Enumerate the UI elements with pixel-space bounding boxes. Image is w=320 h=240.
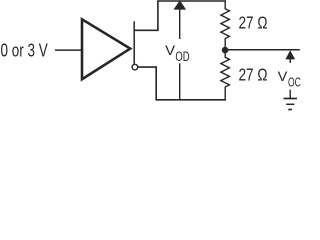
arrow VOC up: [285, 50, 295, 59]
svg-text:V: V: [165, 43, 176, 59]
wire node to VOC: [225, 49, 300, 51]
wire VOD arrow shaft upper: [179, 9, 181, 39]
ground stub: [289, 90, 291, 99]
wire VOC arrow shaft: [289, 59, 291, 63]
wire input to driver: [55, 49, 82, 51]
ground bar 1: [284, 98, 298, 100]
wire driver output vertical bus: [133, 21, 135, 64]
resistor R2 27 ohm bottom: [221, 50, 230, 100]
node junction dot: [222, 47, 229, 54]
svg-text:27 Ω: 27 Ω: [239, 13, 268, 33]
ground bar 3: [288, 109, 292, 111]
arrow VOD up: [174, 0, 187, 9]
svg-text:27 Ω: 27 Ω: [239, 65, 268, 85]
ground bar 2: [286, 103, 294, 105]
svg-text:OD: OD: [175, 49, 189, 64]
svg-text:V: V: [278, 68, 288, 84]
wire bubble to bottom rail and bottom rail: [138, 67, 226, 100]
op-amp U1 driver triangle: [82, 19, 130, 79]
svg-text:OC: OC: [288, 74, 301, 89]
inverter bubble: [132, 64, 138, 70]
svg-text:0 or 3 V: 0 or 3 V: [1, 41, 48, 61]
wire jog to top rail and top rail: [134, 1, 226, 30]
resistor R1 27 ohm top: [221, 1, 230, 50]
wire VOD shaft lower: [179, 63, 181, 100]
